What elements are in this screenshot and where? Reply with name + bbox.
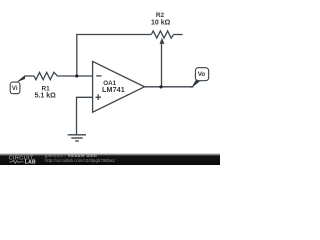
svg-text:LM741: LM741 <box>102 85 125 94</box>
svg-text:R2: R2 <box>156 12 165 19</box>
footer bar <box>0 153 220 165</box>
resistor R2 (rheostat) <box>151 31 173 38</box>
op-amp plus input mark <box>96 96 102 98</box>
node Vi box <box>10 82 20 94</box>
svg-text:Vo: Vo <box>198 71 206 78</box>
wire R2 right lead <box>174 34 183 36</box>
node Vi flag tail <box>16 75 25 83</box>
resistor R1 <box>34 72 57 79</box>
op-amp minus input mark <box>96 75 101 77</box>
wire R2 wiper to output <box>161 43 163 87</box>
wire op-amp non-inverting input <box>77 97 93 134</box>
wire feedback rail <box>77 35 152 77</box>
svg-text:5.1 kΩ: 5.1 kΩ <box>35 93 57 100</box>
op-amp U1 triangle <box>93 61 145 112</box>
node Vo box <box>195 68 208 81</box>
wire R1 to op-amp inverting input <box>57 75 92 77</box>
CircuitLab logo wave <box>9 160 23 163</box>
svg-text:R1: R1 <box>42 85 51 92</box>
wire Vi to R1 <box>25 75 35 77</box>
svg-text:Vi: Vi <box>12 85 18 92</box>
wiper arrow of R2 <box>160 38 165 44</box>
ground <box>68 135 86 141</box>
node Vo flag tail <box>191 80 200 88</box>
junction at inverting input node <box>75 74 78 77</box>
svg-text:10 kΩ: 10 kΩ <box>151 20 171 27</box>
wire output <box>145 86 194 88</box>
junction at output node <box>159 85 162 88</box>
